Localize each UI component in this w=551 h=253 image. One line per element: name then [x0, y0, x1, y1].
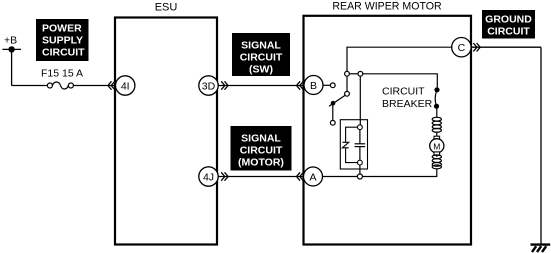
- svg-text:SIGNAL: SIGNAL: [241, 132, 281, 144]
- signal circuit (MOTOR) tag: [231, 126, 292, 171]
- wire A run: [323, 176, 438, 178]
- motor M: [430, 136, 444, 155]
- wire node2 to breaker: [363, 74, 438, 88]
- svg-text:REAR WIPER MOTOR: REAR WIPER MOTOR: [332, 1, 442, 13]
- resistor R1 (Z element) branch: [342, 127, 357, 162]
- wire switch pivot down: [332, 103, 334, 120]
- noise suppressor box: [340, 120, 367, 169]
- wire fuse to ESU pin 4I: [73, 85, 114, 87]
- suppressor bottom terminal: [358, 160, 363, 165]
- wire coil to motor: [436, 132, 438, 137]
- connector pin 4I: [116, 76, 135, 95]
- connector pin 4J: [199, 167, 218, 186]
- connector pin B: [304, 76, 323, 95]
- chevrons into 4I: [108, 81, 115, 89]
- ESU box U1: [115, 18, 217, 245]
- park switch arm SW1: [329, 95, 345, 106]
- ground: [531, 245, 551, 252]
- wire breaker to coil: [436, 106, 438, 117]
- wire node2 down to suppressor: [359, 76, 361, 125]
- signal circuit (SW) tag: [232, 33, 290, 76]
- connector pin C: [452, 38, 471, 57]
- svg-text:(MOTOR): (MOTOR): [238, 156, 284, 168]
- wire suppressor to junction: [359, 165, 361, 174]
- wire ground drop: [540, 47, 542, 244]
- wire coil 2 to A run: [436, 169, 438, 177]
- wire 4J to A: [218, 176, 303, 178]
- svg-text:(SW): (SW): [249, 63, 273, 75]
- chevrons out of 3D: [221, 81, 228, 89]
- fuse F15 15A: [47, 82, 73, 89]
- node +B stub wire: [3, 48, 22, 50]
- svg-text:POWER: POWER: [42, 23, 82, 35]
- switch terminal contact (from B): [330, 83, 335, 88]
- motor coil L2: [432, 155, 441, 169]
- svg-text:F15 15 A: F15 15 A: [41, 68, 83, 80]
- junction node on A run: [357, 174, 362, 179]
- rear wiper motor box M1: [304, 16, 472, 245]
- wire contact to node: [346, 76, 348, 91]
- node contact 1: [345, 71, 350, 76]
- power supply circuit tag: [36, 19, 89, 61]
- connector pin 3D: [199, 76, 218, 95]
- CIRCUIT BREAKER label: [382, 86, 433, 110]
- connector pin A: [304, 167, 323, 186]
- svg-text:3D: 3D: [202, 80, 216, 92]
- svg-text:4J: 4J: [203, 171, 214, 183]
- svg-text:GROUND: GROUND: [485, 14, 532, 26]
- node +B junction dot: [8, 46, 14, 52]
- suppressor top terminal: [358, 125, 363, 130]
- svg-text:SIGNAL: SIGNAL: [241, 39, 281, 51]
- capacitor C1: [355, 130, 366, 161]
- switch upper contact: [345, 91, 350, 96]
- wire 3D to B: [218, 85, 303, 87]
- svg-text:CIRCUIT: CIRCUIT: [240, 51, 283, 63]
- svg-text:SUPPLY: SUPPLY: [42, 35, 83, 47]
- wire +B vertical: [11, 49, 13, 85]
- switch lower contact: [330, 120, 335, 125]
- wire C to ground drop: [472, 46, 541, 48]
- chevrons into A: [297, 172, 304, 180]
- wire node up to C run: [346, 47, 348, 71]
- svg-text:M: M: [433, 141, 440, 151]
- chevrons out of 4J: [221, 172, 228, 180]
- wire node1 to node2: [349, 73, 358, 75]
- svg-text:C: C: [458, 42, 466, 54]
- wire run to C: [346, 46, 451, 48]
- svg-text:CIRCUIT: CIRCUIT: [382, 86, 425, 98]
- svg-text:CIRCUIT: CIRCUIT: [487, 26, 530, 38]
- svg-text:4I: 4I: [121, 80, 130, 92]
- chevrons into B: [297, 81, 304, 89]
- svg-text:CIRCUIT: CIRCUIT: [240, 144, 283, 156]
- wire +B to fuse: [12, 85, 48, 87]
- svg-text:BREAKER: BREAKER: [382, 98, 433, 110]
- svg-text:A: A: [309, 171, 316, 183]
- node contact 2: [358, 71, 363, 76]
- wire B to switch terminal: [323, 84, 331, 86]
- svg-text:B: B: [310, 80, 317, 92]
- ground circuit tag: [482, 10, 535, 39]
- circuit breaker CB1: [434, 87, 440, 109]
- chevrons out of C: [473, 43, 480, 51]
- wire motor to coil 2: [436, 155, 438, 157]
- motor coil L1: [432, 117, 441, 132]
- svg-text:ESU: ESU: [155, 2, 178, 14]
- svg-text:CIRCUIT: CIRCUIT: [42, 47, 85, 59]
- svg-text:+B: +B: [4, 35, 17, 47]
